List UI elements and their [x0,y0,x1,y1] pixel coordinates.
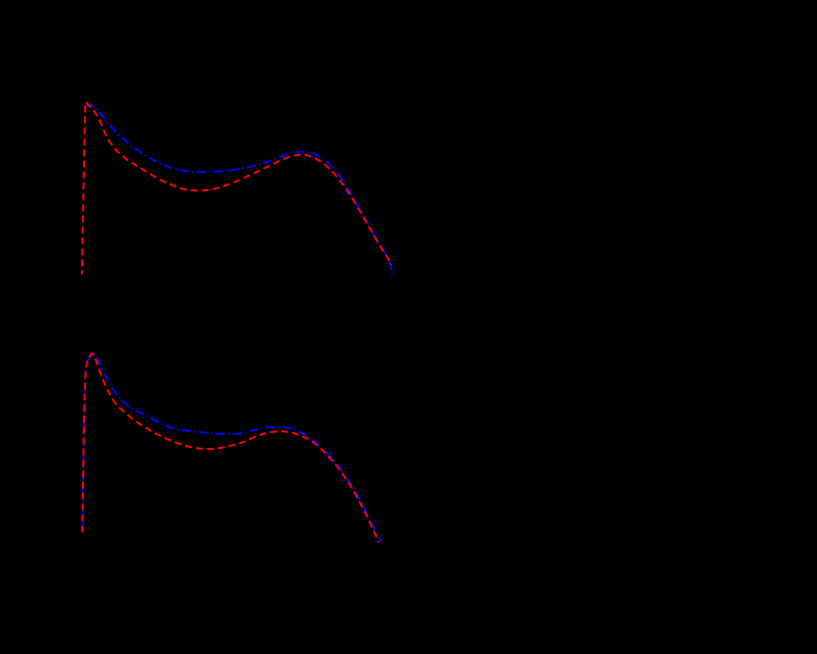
top subplot: red dashed curve with left spike [82,102,392,275]
bottom subplot: blue dash-dot curve with left spike [82,353,381,541]
bottom subplot: red dashed curve with left spike [82,353,378,542]
top subplot: blue dash-dot curve [86,105,393,275]
